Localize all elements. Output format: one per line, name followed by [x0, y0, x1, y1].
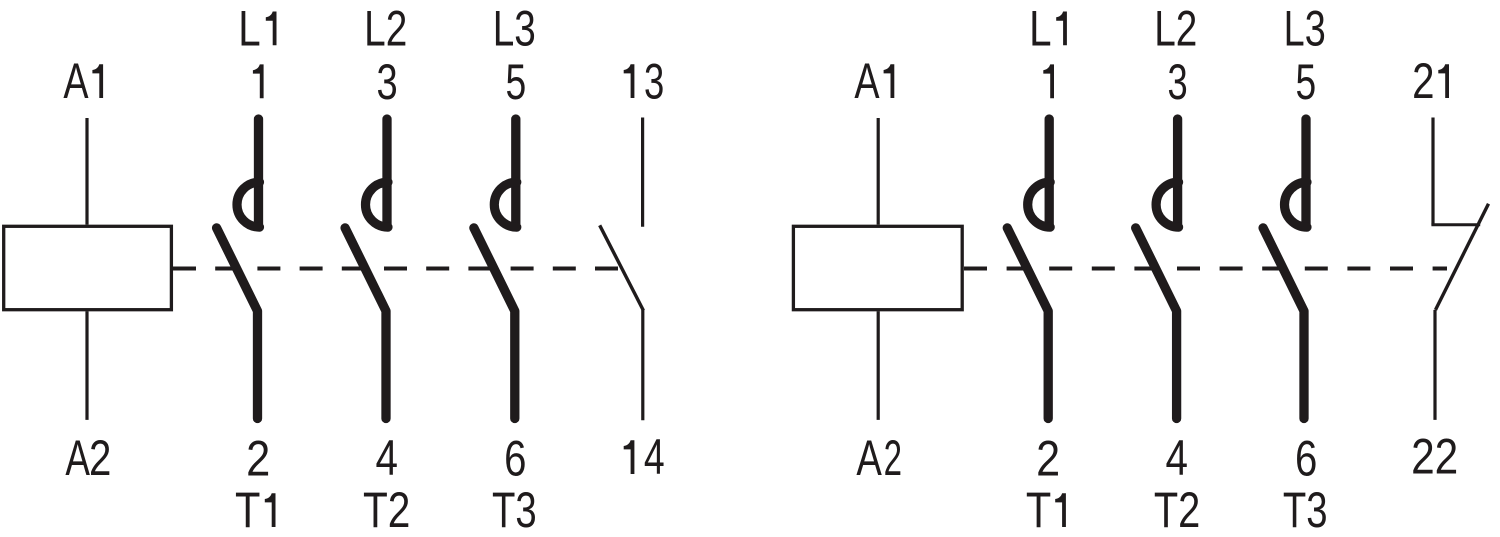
contact pole 3-4 (K1) arc: [366, 182, 388, 227]
coil K1: [4, 226, 172, 309]
svg-text:A: A: [854, 53, 879, 109]
label 14 (K1): [624, 440, 635, 474]
aux contact 21-22 NC (K2) bottom terminal wire: [1433, 310, 1436, 420]
svg-text:T3: T3: [492, 482, 537, 537]
contact pole 3-4 (K2) top terminal wire: [1173, 119, 1182, 225]
svg-text:5: 5: [505, 54, 526, 110]
contact pole 1-2 (K2) blade and bottom terminal: [1007, 228, 1048, 419]
aux contact 13-14 NO (K1) top terminal wire: [641, 118, 644, 227]
svg-text:6: 6: [1295, 430, 1317, 486]
wire mechanical linkage K1 (dashed): [173, 267, 619, 271]
svg-text:2: 2: [1412, 53, 1434, 109]
contact pole 3-4 (K2) arc: [1156, 182, 1179, 227]
svg-text:L3: L3: [493, 1, 536, 57]
contact pole 1-2 (K1) blade and bottom terminal: [217, 228, 258, 419]
svg-text:2: 2: [89, 430, 111, 486]
svg-text:A: A: [856, 430, 881, 486]
contact pole 1-2 (K2) arc: [1028, 182, 1050, 227]
svg-text:3: 3: [377, 54, 398, 110]
svg-text:2: 2: [884, 430, 902, 486]
coil K2: [793, 226, 962, 309]
svg-text:4: 4: [375, 430, 397, 486]
contact pole 3-4 (K1) top terminal wire: [382, 119, 391, 225]
contact pole 5-6 (K2) blade and bottom terminal: [1263, 228, 1304, 419]
svg-text:6: 6: [504, 430, 526, 486]
svg-text:3: 3: [1168, 54, 1188, 110]
aux contact 21-22 NC (K2) blade: [1436, 204, 1489, 310]
contact pole 5-6 (K1) arc: [494, 182, 516, 227]
label 1 (K1): [253, 64, 264, 98]
svg-text:4: 4: [1165, 430, 1187, 486]
svg-text:T3: T3: [1283, 482, 1328, 537]
contact pole 5-6 (K2) arc: [1285, 182, 1308, 227]
aux contact 13-14 NO (K1) bottom terminal wire: [641, 310, 644, 420]
svg-text:A: A: [63, 53, 88, 109]
contact pole 1-2 (K2) top terminal wire: [1045, 119, 1054, 225]
wire A2 (K1 coil bottom): [85, 311, 88, 420]
svg-text:5: 5: [1296, 54, 1317, 110]
svg-text:T2: T2: [363, 482, 410, 537]
svg-text:2: 2: [1036, 430, 1060, 486]
contact pole 5-6 (K1) top terminal wire: [511, 119, 520, 225]
contact pole 3-4 (K2) blade and bottom terminal: [1136, 228, 1177, 419]
contact pole 3-4 (K1) blade and bottom terminal: [345, 228, 386, 419]
wire A1 (K1 coil top): [85, 118, 88, 225]
svg-text:L: L: [1029, 0, 1051, 56]
wire A2 (K2 coil bottom): [877, 311, 880, 420]
wire mechanical linkage K2 (dashed): [964, 267, 1447, 271]
svg-text:T2: T2: [1154, 482, 1200, 537]
svg-text:3: 3: [644, 54, 664, 110]
label 1 (K2): [1043, 64, 1054, 98]
wire A1 (K2 coil top): [877, 118, 880, 225]
svg-text:T: T: [235, 482, 260, 537]
aux contact 21-22 NC (K2) top terminal wire: [1431, 118, 1434, 225]
svg-text:L2: L2: [364, 1, 407, 57]
aux contact 13-14 NO (K1) blade: [600, 225, 644, 310]
svg-text:A: A: [65, 430, 90, 486]
svg-text:22: 22: [1411, 429, 1458, 485]
contact pole 1-2 (K1) top terminal wire: [254, 119, 263, 225]
svg-text:L2: L2: [1154, 1, 1197, 57]
contact pole 5-6 (K1) blade and bottom terminal: [474, 228, 515, 419]
contact pole 5-6 (K2) top terminal wire: [1301, 119, 1310, 225]
svg-text:T: T: [1026, 482, 1051, 537]
svg-text:L: L: [238, 0, 260, 56]
svg-text:4: 4: [644, 429, 665, 485]
contact pole 1-2 (K1) arc: [237, 182, 259, 227]
svg-text:2: 2: [246, 430, 270, 486]
svg-text:L3: L3: [1284, 1, 1326, 57]
label 13 (K1): [624, 64, 635, 98]
aux contact 21-22 NC (K2) seat bar: [1431, 223, 1480, 226]
